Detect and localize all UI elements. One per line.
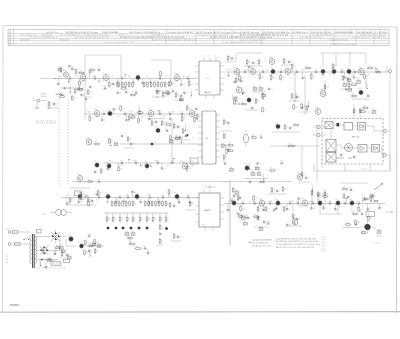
resistor R70 (120, 86, 127, 89)
svg-text:47k: 47k (311, 74, 314, 76)
U2 right-side parts column (220, 119, 232, 161)
stub part N22 (291, 63, 295, 72)
svg-text:47k: 47k (236, 102, 239, 104)
grid stub resistor R41 (165, 213, 169, 223)
svg-text:47n: 47n (66, 88, 69, 90)
svg-text:2n2: 2n2 (177, 200, 180, 202)
svg-text:C67: C67 (329, 201, 332, 203)
svg-text:2k2: 2k2 (323, 194, 326, 196)
capacitor C19 electrolytic (114, 141, 118, 145)
svg-text:10n: 10n (158, 91, 161, 93)
cluster x92-104 y160-175 (94, 161, 104, 174)
svg-text:10n: 10n (270, 88, 273, 90)
chain value labels output chain (228, 201, 373, 208)
cluster right of U1 x226-234 y55-62 (225, 55, 235, 62)
capacitor C43 electrolytic (47, 257, 51, 261)
svg-text:T20: T20 (107, 110, 110, 112)
svg-text:3k9 220 4k7 0.1 BC148B 10n: 3k9 220 4k7 0.1 BC148B 10n (263, 32, 289, 34)
stub part N49 (66, 198, 71, 206)
mains fuse link upper (11, 229, 31, 233)
wire output chain y=203.5 (224, 203, 385, 205)
stub part N64 (240, 204, 245, 213)
bridge rectifier D5-D8 (lower) (36, 246, 60, 255)
svg-text:10n: 10n (170, 160, 173, 162)
stub part N76 (378, 204, 381, 210)
svg-text:BC148B 10n 2x 47k AC127 1n5 el: BC148B 10n 2x 47k AC127 1n5 elpo 100µ 6V… (276, 240, 318, 243)
svg-text:1k: 1k (159, 84, 161, 86)
svg-text:7: 7 (130, 157, 131, 159)
sheet bottom edge (0, 311, 400, 314)
svg-text:220 4k7 0.1 BC148B 10n 2x: 220 4k7 0.1 BC148B 10n 2x (30, 37, 58, 39)
svg-text:T17: T17 (358, 89, 361, 91)
wire vertical stub x=121 (120, 55, 122, 78)
cluster x186-199 y108-118 (186, 105, 200, 121)
svg-text:220: 220 (306, 65, 309, 67)
resistor R47 (240, 101, 247, 104)
svg-text:5n: 5n (197, 109, 199, 111)
discriminator parts x290-300 (289, 93, 300, 102)
wire stub W13 (361, 195, 364, 202)
diagonal arrow (tone arm) (374, 183, 383, 190)
svg-text:C121: C121 (179, 160, 183, 162)
svg-text:4k7: 4k7 (140, 120, 143, 122)
svg-text:12k: 12k (191, 204, 194, 206)
svg-text:C67: C67 (146, 76, 149, 78)
svg-text:2M2: 2M2 (95, 141, 98, 143)
resistor R15 (304, 65, 311, 68)
stub part N7 (117, 79, 122, 88)
transistor T36 (174, 193, 179, 200)
U3 top pins (204, 186, 216, 193)
svg-text:10µ: 10µ (56, 245, 59, 247)
resistor R17 (375, 69, 382, 72)
capacitor C28 (230, 198, 234, 202)
grid bottom part x130 y244 (128, 238, 136, 245)
svg-text:1n5: 1n5 (167, 165, 170, 167)
svg-text:+6: +6 (138, 105, 140, 107)
stub part N40 (194, 114, 199, 123)
svg-text:10n: 10n (366, 93, 369, 95)
capacitor C40 electrolytic (92, 242, 96, 246)
module label (352, 136, 359, 139)
svg-text:1n: 1n (61, 92, 63, 94)
svg-text:2x 47k AC127 1n5 elpo 100µ: 2x 47k AC127 1n5 elpo 100µ (330, 43, 357, 46)
wire vertical stub x=236 (235, 54, 237, 62)
wire stub W12 (310, 184, 313, 191)
resistor R51 (350, 82, 357, 86)
capacitor C47 (359, 110, 364, 114)
svg-text:1k: 1k (259, 209, 261, 211)
svg-text:10n: 10n (143, 246, 146, 248)
right edge stub y212 (386, 211, 393, 212)
module top row wires (333, 125, 382, 131)
resistor R16 (366, 65, 373, 68)
stub part N12 (160, 70, 164, 78)
diode D1 dark (187, 134, 189, 137)
svg-text:10µ: 10µ (348, 87, 351, 89)
svg-text:10n: 10n (256, 74, 259, 76)
svg-text:10µ: 10µ (114, 141, 117, 143)
cluster x126-132 y135-148 (124, 136, 134, 148)
resistor R2 (121, 81, 125, 88)
resistor R28 (155, 200, 159, 207)
svg-text:1k: 1k (113, 203, 115, 205)
svg-text:1k: 1k (152, 84, 154, 86)
svg-text:68: 68 (270, 168, 272, 170)
svg-text:5n: 5n (182, 96, 184, 98)
capacitor C32 electrolytic (243, 221, 247, 225)
svg-text:+11,4V: +11,4V (222, 182, 229, 184)
wire stub W6 (179, 136, 182, 143)
svg-text:1n5 elpo 100µ 6V8 AF117: 1n5 elpo 100µ 6V8 AF117 (252, 238, 272, 241)
svg-text:10n: 10n (97, 67, 100, 69)
svg-text:47k: 47k (182, 116, 185, 118)
svg-text:5n: 5n (142, 202, 144, 204)
svg-text:220: 220 (242, 208, 245, 210)
svg-text:8k2: 8k2 (343, 186, 346, 188)
svg-text:10n: 10n (250, 66, 253, 68)
svg-text:2000µ: 2000µ (51, 260, 55, 262)
svg-text:2k2: 2k2 (242, 101, 245, 103)
svg-text:33k 2n2 0.47: 33k 2n2 0.47 (60, 39, 69, 41)
svg-text:BF: BF (191, 161, 193, 163)
svg-text:5n: 5n (298, 219, 300, 221)
svg-text:220p: 220p (95, 192, 99, 194)
svg-text:+: + (133, 246, 134, 248)
svg-text:T42: T42 (335, 199, 338, 201)
svg-text:T11: T11 (346, 68, 349, 70)
grid lower boxes (125, 231, 135, 239)
wire stub W16 (68, 86, 71, 93)
stub parts x342-350 y186-193 (342, 186, 353, 191)
svg-text:T23: T23 (275, 123, 278, 125)
svg-text:R58: R58 (172, 111, 175, 113)
resistor R69 (71, 95, 76, 102)
svg-text:10n: 10n (120, 76, 123, 78)
resistor R60 (317, 191, 322, 198)
svg-text:T28: T28 (144, 162, 147, 164)
svg-text:1k: 1k (121, 219, 123, 221)
chain value labels y163 chain (109, 160, 194, 167)
chain value labels mid chain (87, 111, 196, 118)
resistor R27 (151, 200, 155, 207)
column x172-180 y232-242 (171, 233, 181, 241)
module small caps inside (340, 153, 357, 159)
svg-text:2n2: 2n2 (144, 83, 147, 85)
svg-text:5n: 5n (150, 119, 152, 121)
capacitor C21 electrolytic (221, 143, 225, 147)
svg-text:3k9 220 4k7 0.1 BC148B 10n 2x: 3k9 220 4k7 0.1 BC148B 10n 2x (130, 32, 160, 34)
stub part N63 (226, 204, 229, 212)
transistor T16 (315, 107, 321, 116)
svg-text:1k: 1k (259, 218, 261, 220)
small part x132-150 y245-253 (133, 246, 150, 254)
svg-text:12k: 12k (89, 92, 92, 94)
wire stub W1 (77, 83, 80, 90)
stub part N68 (286, 204, 291, 212)
svg-text:10n: 10n (120, 160, 123, 162)
svg-text:10µ: 10µ (179, 97, 182, 99)
left tiny stubs (6, 256, 9, 262)
transistor T27 (106, 162, 111, 169)
pin labels above U3 (202, 185, 209, 187)
wire vertical stub x=171 top (170, 60, 172, 78)
chain value labels FM chain (228, 69, 380, 76)
hatched smoothing cap 2000u (51, 260, 61, 265)
wire vertical x=295 (294, 72, 296, 100)
svg-text:1k: 1k (308, 108, 310, 110)
svg-text:C84: C84 (68, 81, 71, 83)
svg-text:10: 10 (192, 161, 194, 163)
svg-text:220: 220 (353, 211, 356, 213)
svg-text:5n: 5n (163, 168, 165, 170)
svg-text:220 4k7 0.1 BC148B: 220 4k7 0.1 BC148B (102, 32, 119, 34)
svg-text:R93: R93 (129, 111, 132, 113)
svg-text:1n: 1n (182, 84, 184, 86)
stub part N25 (322, 72, 324, 78)
svg-text:1: 1 (33, 98, 34, 100)
capacitor C42 electrolytic (59, 245, 63, 249)
title-block revision row 4 text (20, 38, 348, 41)
svg-text:R93: R93 (269, 201, 272, 203)
resistor R76 (165, 122, 172, 126)
svg-text:+4: +4 (248, 163, 250, 165)
neutralising cluster x176 (174, 92, 184, 101)
svg-text:4k7: 4k7 (249, 201, 252, 203)
stub part N70 (310, 204, 315, 211)
svg-text:10n: 10n (288, 209, 291, 211)
svg-text:+6: +6 (361, 195, 363, 197)
net 12V rail right segment (340, 182, 368, 184)
svg-text:TAA 570: TAA 570 (204, 91, 211, 94)
resistor R50 (301, 103, 306, 110)
svg-text:10n: 10n (360, 211, 363, 213)
svg-text:4: 4 (125, 202, 126, 204)
resistor R61 (322, 194, 329, 197)
svg-text:10n: 10n (244, 93, 247, 95)
svg-text:R93: R93 (266, 69, 269, 71)
svg-text:47n: 47n (236, 82, 239, 84)
capacitor C50 (64, 87, 69, 91)
transistor T31 reg (dark) (78, 242, 83, 249)
wire vertical right-edge feed x=390 (389, 71, 391, 171)
svg-text:47n: 47n (181, 137, 184, 139)
svg-text:1k: 1k (163, 84, 165, 86)
svg-text:R217: R217 (376, 69, 380, 71)
svg-text:10k: 10k (260, 62, 263, 64)
svg-text:5n: 5n (303, 108, 305, 110)
wire stub W11 (292, 217, 295, 224)
svg-text:T15: T15 (246, 96, 249, 98)
stub part N57 (140, 198, 144, 204)
svg-text:1n: 1n (91, 72, 93, 74)
resistor R20 (118, 200, 122, 207)
svg-text:4k7: 4k7 (366, 76, 369, 78)
module top feed parts (353, 75, 376, 118)
transistor T39 (275, 199, 280, 206)
transistor T21 (148, 109, 154, 118)
bottom right label (374, 243, 379, 245)
svg-text:T38: T38 (259, 198, 262, 200)
svg-text:10n: 10n (349, 187, 352, 189)
svg-text:5n: 5n (253, 108, 255, 110)
wire stub W8 (109, 139, 112, 146)
svg-text:T2: T2 (103, 73, 105, 75)
transistor T2 (103, 73, 109, 82)
svg-text:5n: 5n (254, 63, 256, 65)
stub part N5 (98, 79, 100, 84)
title-block revision row 1 text (46, 31, 388, 34)
capacitor C65 (179, 136, 184, 140)
top bias parts cluster x245-260 (244, 59, 263, 66)
resistor R54 (108, 138, 113, 145)
svg-text:5n: 5n (229, 123, 231, 125)
mains link lower (11, 243, 31, 245)
svg-text:50µ: 50µ (125, 231, 128, 233)
grid stub resistor R33 (112, 213, 116, 223)
supply wires (60, 237, 104, 251)
supply chain parts (87, 243, 101, 254)
svg-text:50µ: 50µ (131, 114, 134, 116)
resistor R5 (132, 81, 136, 88)
svg-text:1k: 1k (188, 108, 190, 110)
grid stub resistor R37 (139, 213, 143, 223)
svg-text:f1: f1 (345, 126, 347, 128)
svg-text:+10: +10 (109, 139, 112, 141)
svg-text:T21: T21 (148, 109, 151, 111)
svg-text:R217: R217 (58, 76, 62, 78)
U3-right parts column x230-240 (232, 187, 241, 202)
svg-text:1k: 1k (129, 139, 131, 141)
wire audio chain y=197.5 (62, 197, 199, 199)
svg-text:10n: 10n (241, 201, 244, 203)
resistor R75 (137, 110, 144, 113)
title-block revision row 5 text (104, 41, 357, 46)
svg-text:4k7: 4k7 (128, 235, 131, 237)
wire vertical stub x=323 (322, 54, 324, 67)
svg-text:1k: 1k (128, 219, 130, 221)
resistor R4 (128, 81, 132, 88)
resistor R14 (130, 92, 137, 95)
svg-text:a: a (152, 167, 153, 169)
svg-text:1k: 1k (131, 203, 133, 205)
wire FM chain y=72 (225, 71, 388, 73)
svg-text:5n: 5n (132, 144, 134, 146)
capacitor C52 (134, 90, 138, 94)
svg-text:2n2: 2n2 (330, 74, 333, 76)
capacitor C13 (261, 96, 265, 100)
stub part N47 (172, 159, 175, 163)
capacitor C44 (95, 192, 99, 196)
svg-text:10k: 10k (190, 83, 193, 85)
svg-text:1n5: 1n5 (116, 200, 119, 202)
svg-text:T31: T31 (86, 137, 89, 139)
svg-text:10k: 10k (100, 192, 103, 194)
capacitor C11 (268, 87, 273, 91)
svg-text:3p: 3p (353, 69, 355, 71)
stub part N61 (177, 198, 180, 204)
stub part N23 (302, 72, 306, 80)
svg-text:560 15n 3k9 220 4k7: 560 15n 3k9 220 4k7 (311, 32, 332, 34)
svg-text:1k: 1k (127, 203, 129, 205)
svg-text:R217: R217 (66, 195, 70, 197)
module M1 dashed enclosure (HF unit) (322, 119, 383, 165)
svg-text:4k7: 4k7 (196, 119, 199, 121)
stub part N24 (310, 72, 314, 80)
svg-text:10n: 10n (357, 201, 360, 203)
svg-text:5n: 5n (235, 196, 237, 198)
svg-text:bu 3-7: bu 3-7 (362, 169, 367, 171)
resistor R31 (165, 200, 169, 207)
resistor R18 (111, 200, 115, 207)
chain y114 caps and parts (102, 111, 184, 115)
svg-text:1k2: 1k2 (88, 179, 91, 181)
svg-text:10µ: 10µ (243, 221, 246, 223)
svg-text:220p: 220p (134, 90, 138, 92)
svg-text:2n2: 2n2 (115, 109, 118, 111)
svg-text:10n: 10n (158, 111, 161, 113)
stub part N41 (107, 163, 112, 171)
svg-text:5n: 5n (355, 157, 357, 159)
svg-text:5n: 5n (91, 87, 93, 89)
capacitor C27 (244, 215, 248, 219)
capacitor C59 electrolytic (61, 249, 65, 253)
grid stub resistor R38 (146, 213, 150, 223)
capacitor C56 (156, 89, 161, 93)
svg-text:1k: 1k (161, 227, 163, 229)
wire vertical feed x=85 (84, 55, 86, 119)
svg-text:560: 560 (359, 69, 362, 71)
grid stub resistor R34 (119, 213, 123, 223)
svg-text:delay: delay (289, 143, 293, 145)
svg-text:T3: T3 (135, 74, 137, 76)
svg-text:+8: +8 (365, 82, 367, 84)
svg-text:47k: 47k (157, 200, 160, 202)
svg-text:50µ: 50µ (235, 190, 238, 192)
sheet right edge (396, 27, 399, 313)
input cluster: aerial coupling (33, 92, 66, 102)
svg-text:220p: 220p (230, 198, 234, 200)
grid right column x158-166 (157, 224, 163, 245)
svg-text:+7: +7 (77, 83, 79, 85)
capacitor C1 (112, 82, 116, 86)
agc parts x88 (85, 89, 92, 97)
stub part N56 (131, 190, 135, 197)
svg-text:330: 330 (295, 107, 298, 109)
wire stub W14 (39, 259, 42, 266)
dual diode pair circles x55-66 y209-216 (43, 210, 67, 216)
svg-text:10n: 10n (343, 201, 346, 203)
module filter box 1 (344, 123, 353, 131)
wire vertical x=305 (304, 75, 306, 115)
wires linking output stage (320, 206, 352, 214)
svg-text:C43: C43 (367, 74, 370, 76)
resistor R72 (164, 90, 171, 93)
svg-text:1k: 1k (71, 200, 73, 202)
svg-text:15n: 15n (174, 81, 177, 83)
resistor R13 (168, 81, 173, 88)
stub part N66 (262, 204, 265, 211)
svg-text:1k: 1k (257, 101, 259, 103)
svg-text:10n: 10n (171, 118, 174, 120)
svg-text:470: 470 (150, 203, 153, 205)
mixer cluster below chain x235-245 (233, 77, 244, 105)
svg-text:T30: T30 (94, 161, 97, 163)
svg-text:2n: 2n (186, 76, 188, 78)
svg-text:T34: T34 (105, 193, 108, 195)
svg-text:+11: +11 (68, 86, 71, 88)
svg-text:T36: T36 (174, 193, 177, 195)
